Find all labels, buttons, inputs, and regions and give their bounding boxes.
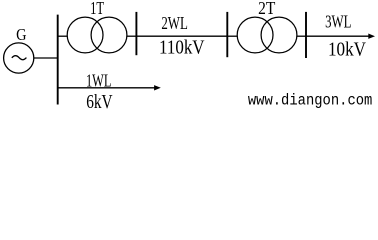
generator G	[4, 43, 34, 73]
wire busbar W3 to transformer 2T	[227, 35, 237, 37]
svg-text:3WL: 3WL	[325, 11, 351, 31]
svg-text:2T: 2T	[258, 0, 275, 18]
svg-text:110kV: 110kV	[159, 37, 205, 58]
busbar W4 (10kV bus)	[305, 12, 307, 58]
busbar W2 (110kV sending bus)	[135, 12, 137, 55]
wire G to 6kV busbar	[34, 57, 58, 59]
wire 2WL transmission line 110kV	[136, 35, 227, 37]
wire 3WL feeder 10kV with arrow	[306, 34, 375, 39]
svg-text:1WL: 1WL	[86, 70, 111, 90]
svg-text:www.diangon.com: www.diangon.com	[248, 91, 373, 109]
busbar W1 (generator 6kV bus)	[57, 15, 59, 105]
wire transformer 1T to busbar W2	[127, 35, 136, 37]
svg-text:1T: 1T	[90, 0, 104, 18]
wire transformer 2T to busbar W4	[297, 35, 306, 37]
svg-text:2WL: 2WL	[161, 13, 188, 33]
wire 1WL feeder 6kV with arrow	[58, 85, 161, 90]
transformer 1T	[67, 17, 127, 53]
svg-text:G: G	[16, 25, 26, 44]
wire busbar W1 to transformer 1T	[58, 35, 68, 37]
svg-text:6kV: 6kV	[86, 91, 113, 112]
busbar W3 (110kV receiving bus)	[226, 12, 228, 57]
transformer 2T	[237, 17, 297, 53]
svg-text:10kV: 10kV	[328, 39, 366, 61]
